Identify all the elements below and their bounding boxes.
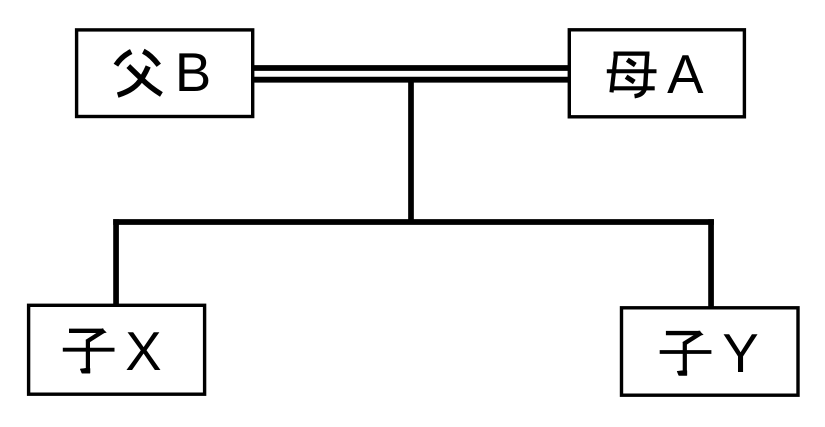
svg-text:Y: Y	[722, 323, 758, 384]
label A	[667, 44, 704, 105]
svg-text:X: X	[125, 321, 161, 382]
sibling horizontal line	[113, 219, 714, 225]
marriage double line top	[252, 65, 570, 71]
left child drop line	[113, 219, 119, 305]
glyph 子 of 子Y (child kanji)	[660, 331, 712, 376]
right child drop line	[708, 219, 714, 308]
label B	[175, 42, 211, 103]
label Y	[722, 323, 758, 384]
descent vertical line from marriage	[408, 77, 414, 222]
svg-text:B: B	[175, 42, 211, 103]
box 子Y (child Y box)	[622, 308, 799, 395]
box 子X (child X box)	[29, 305, 205, 394]
box 母A (mother box)	[569, 30, 744, 117]
box 父B (father box)	[77, 30, 253, 117]
glyph 父 (father kanji)	[116, 51, 161, 95]
svg-text:A: A	[667, 44, 704, 105]
glyph 母 (mother kanji)	[607, 52, 657, 96]
label X	[125, 321, 161, 382]
glyph 子 of 子X (child kanji)	[63, 329, 115, 374]
marriage double line bottom	[252, 77, 570, 83]
